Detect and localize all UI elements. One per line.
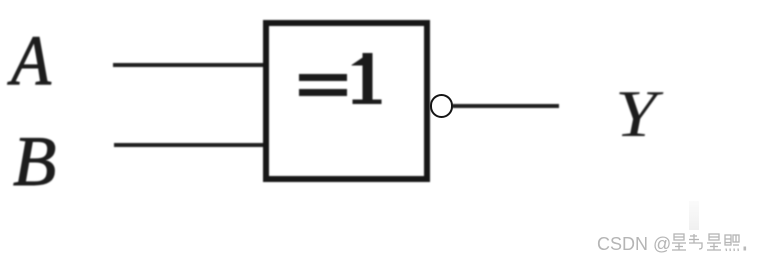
inversion bubble on gate output bbox=[430, 94, 454, 118]
gate function label digit 1 bbox=[350, 50, 385, 108]
node Y label bbox=[615, 81, 657, 148]
period bbox=[744, 247, 747, 251]
gate function label equals bar top bbox=[299, 74, 347, 81]
watermark text CSDN @星与星熙. bbox=[597, 233, 757, 254]
XNOR gate U1 body (IEC rectangle) bbox=[263, 20, 430, 182]
node B label bbox=[13, 127, 56, 198]
wire Y (bubble to output) bbox=[452, 104, 559, 108]
wire B (input B to gate) bbox=[114, 143, 266, 147]
glyph 星 (1) bbox=[672, 234, 686, 250]
gate function label equals bar bottom bbox=[299, 89, 347, 96]
wire A (input A to gate) bbox=[113, 63, 266, 67]
node A label bbox=[11, 26, 51, 97]
glyph 与 bbox=[689, 234, 702, 249]
glyph 星 (2) bbox=[707, 234, 721, 250]
glyph 熙 bbox=[725, 235, 739, 251]
watermark logo fragment bbox=[689, 201, 699, 230]
